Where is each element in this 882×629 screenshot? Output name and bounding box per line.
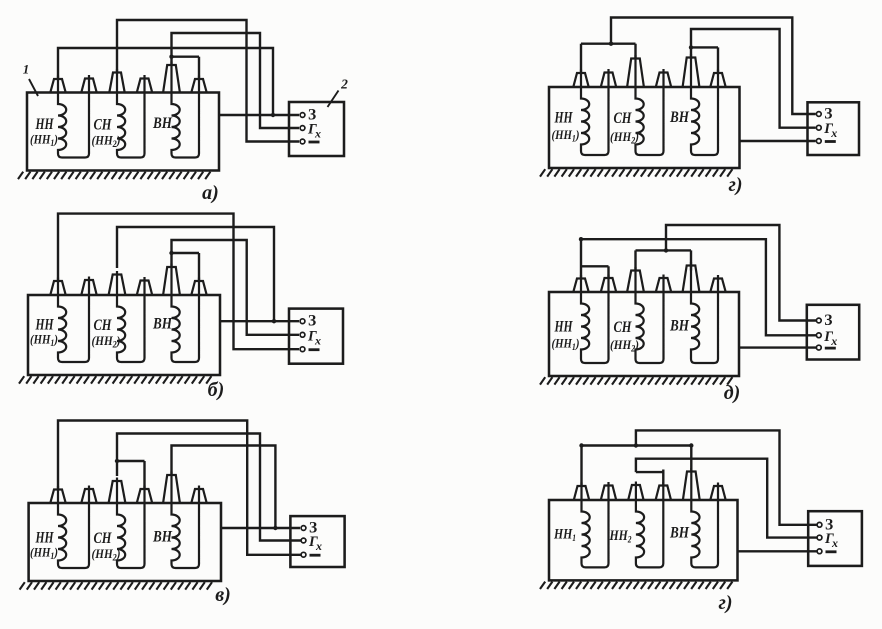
- svg-text:2: 2: [340, 77, 348, 92]
- svg-text:ВН: ВН: [669, 525, 689, 542]
- terminal rx circle (panel г): [816, 125, 821, 130]
- bushing 2 (panel д): [601, 278, 616, 292]
- terminal З circle (panel е): [817, 522, 822, 527]
- terminal З circle (panel б): [300, 319, 305, 324]
- bushing 6 (panel а): [191, 79, 206, 93]
- svg-text:1: 1: [23, 62, 30, 77]
- junction bushing5 bridge (panel г): [689, 45, 693, 49]
- wire bushing4 riser (panel в): [143, 461, 145, 490]
- terminal minus circle (panel е): [817, 549, 822, 554]
- svg-text:НН: НН: [554, 110, 573, 127]
- wire bridge bushing1-bushing5 line A (panel е): [582, 446, 692, 487]
- svg-text:х: х: [315, 539, 322, 553]
- svg-text:НН1: НН1: [553, 527, 576, 545]
- svg-text:З: З: [824, 312, 832, 329]
- wire bridge bushing3-bushing4 (panel в): [117, 460, 145, 462]
- bushing 1 (panel е): [574, 486, 589, 500]
- svg-text:(НН2): (НН2): [610, 337, 639, 355]
- bushing 2 (panel а): [81, 79, 96, 93]
- svg-text:(НН2): (НН2): [92, 333, 121, 351]
- winding НН coil (panel в): [58, 486, 89, 569]
- terminal З circle (panel д): [816, 318, 821, 323]
- svg-text:ВН: ВН: [152, 115, 172, 132]
- winding СН coil (panel в): [117, 478, 145, 569]
- svg-text:д): д): [724, 382, 741, 404]
- winding НН coil (panel г): [581, 69, 609, 155]
- svg-text:СН: СН: [94, 117, 112, 134]
- terminal rx circle (panel в): [301, 538, 306, 543]
- bushing 4 (panel г): [656, 73, 671, 88]
- junction riser on line A (panel е): [634, 443, 638, 447]
- wire bridge bushing5-bushing6 (panel а): [172, 56, 200, 58]
- megohmmeter box (panel д): [807, 305, 859, 360]
- wire ВН bushing5 to rx terminal (panel б): [172, 240, 300, 335]
- terminal label minus dash (panel б): [309, 348, 320, 351]
- wire ВН bushing5 to ground bus (panel в): [172, 446, 276, 529]
- bushing 4 (panel а): [137, 79, 152, 93]
- bushing 5 (panel в): [163, 475, 180, 503]
- wire bushing6 riser (panel б): [198, 253, 200, 282]
- bushing 3 (panel а): [109, 73, 124, 93]
- wire ВН bushing5 to rx terminal (panel а): [172, 33, 300, 128]
- bushing 4 (panel д): [656, 278, 671, 292]
- bushing 5 (panel е): [683, 472, 700, 501]
- winding ВН coil (panel е): [691, 468, 718, 567]
- callout leader 2 (panel а): [328, 91, 339, 108]
- svg-text:в): в): [215, 584, 231, 606]
- wire НН2 bridge to rx terminal (panel е): [636, 459, 817, 538]
- svg-text:(НН1): (НН1): [552, 336, 580, 354]
- wire СН bushing3 to ground bus (panel б): [117, 227, 274, 321]
- svg-text:НН: НН: [35, 116, 54, 133]
- winding СН coil (panel г): [636, 55, 664, 155]
- transformer tank 1 (panel е): [549, 500, 738, 580]
- wire tank wall to minus terminal (panel е): [738, 550, 818, 552]
- terminal minus circle (panel г): [816, 139, 821, 144]
- bushing 4 (panel е): [656, 486, 671, 501]
- winding НН coil (panel б): [58, 277, 89, 363]
- winding СН coil (panel а): [117, 69, 145, 158]
- ground hatching under tank (panel б): [19, 376, 211, 383]
- bushing 1 (panel а): [50, 79, 65, 93]
- bushing 1 (panel г): [573, 73, 588, 87]
- wire bushing6 riser (panel г): [717, 47, 719, 73]
- megohmmeter box (panel е): [808, 511, 862, 566]
- bushing 3 (panel е): [628, 485, 643, 500]
- wire tank wall to З terminal (panel б): [220, 320, 299, 322]
- terminal minus circle (panel в): [301, 552, 306, 557]
- wire НН bushing1 to ground bus (panel а): [58, 48, 273, 115]
- wire bridge bushing5-bushing6 (panel б): [172, 252, 200, 254]
- terminal label minus dash (panel в): [310, 554, 321, 557]
- terminal minus circle (panel а): [300, 139, 305, 144]
- bushing 4 (panel в): [137, 489, 152, 503]
- wire НН bushing1 to minus terminal (panel в): [58, 421, 301, 555]
- winding НН coil (panel д): [581, 275, 609, 364]
- wire bushing6 riser (panel а): [198, 57, 200, 79]
- bushing 5 (panel б): [163, 267, 180, 295]
- winding ВН coil (panel а): [172, 62, 200, 158]
- wire bushing2 riser (panel д): [607, 266, 609, 278]
- junction ВН wire on З bus (panel в): [273, 526, 277, 530]
- svg-text:З: З: [824, 106, 832, 123]
- bushing 6 (panel е): [710, 486, 725, 500]
- terminal minus circle (panel б): [300, 347, 305, 352]
- megohmmeter box (panel г): [808, 102, 860, 155]
- megohmmeter box (panel а): [289, 102, 344, 156]
- svg-text:х: х: [314, 127, 321, 141]
- winding СН coil (panel д): [636, 267, 664, 363]
- svg-text:СН: СН: [614, 110, 632, 127]
- bushing 6 (panel д): [710, 279, 725, 293]
- terminal rx circle (panel б): [300, 332, 305, 337]
- junction bushing3 bridge (panel в): [115, 459, 119, 463]
- ground hatching under tank (panel е): [540, 582, 732, 589]
- terminal label minus dash (panel г): [825, 140, 836, 143]
- junction bushing1 corner (panel е): [579, 443, 583, 447]
- bushing 2 (panel в): [81, 489, 96, 503]
- svg-text:СН: СН: [94, 317, 112, 334]
- wire ВН bushing5 to rx terminal (panel г): [691, 29, 816, 128]
- wire bridge bushing3-bushing4 (panel е): [636, 471, 663, 473]
- wire bridge bushing1-bushing3 (panel г): [581, 43, 636, 45]
- svg-text:ВН: ВН: [152, 529, 172, 546]
- winding СН coil (panel б): [117, 271, 145, 362]
- ground hatching under tank (panel в): [20, 582, 212, 589]
- winding ВН coil (panel г): [691, 54, 718, 155]
- terminal З circle (panel г): [816, 112, 821, 117]
- wire bushing5 riser (panel д): [690, 250, 692, 270]
- transformer tank 1 (panel б): [28, 295, 220, 375]
- terminal rx circle (panel а): [300, 126, 305, 131]
- winding НН coil (panel а): [58, 75, 89, 158]
- junction bushing5 corner (panel е): [689, 443, 693, 447]
- svg-text:ВН: ВН: [669, 318, 689, 335]
- bushing 2 (panel е): [601, 486, 616, 501]
- wire tank wall to minus terminal (panel г): [740, 140, 816, 142]
- bushing 3 (panel б): [109, 275, 126, 296]
- wire bridge bushing1-bushing2 (panel д): [581, 265, 609, 267]
- wire СН+ВН to З terminal (panel д): [666, 225, 816, 321]
- megohmmeter box (panel б): [289, 309, 343, 364]
- ground hatching under tank (panel а): [18, 172, 210, 179]
- bushing 4 (panel б): [137, 281, 152, 296]
- svg-text:(НН2): (НН2): [92, 133, 121, 151]
- wire bridge bushing3-bushing5 (panel д): [636, 249, 692, 251]
- terminal minus circle (panel д): [816, 345, 821, 350]
- svg-text:ВН: ВН: [669, 109, 689, 126]
- svg-text:З: З: [308, 313, 316, 330]
- junction НН wire on З bus (panel а): [271, 113, 275, 117]
- terminal З circle (panel в): [301, 526, 306, 531]
- ground hatching under tank (panel г): [540, 169, 732, 176]
- bushing 1 (panel б): [50, 281, 65, 295]
- svg-text:(НН2): (НН2): [610, 129, 639, 147]
- wire НН bushing1 to rx terminal (panel д): [581, 239, 816, 335]
- svg-text:(НН1): (НН1): [30, 332, 58, 350]
- winding НН coil (panel е): [582, 482, 609, 567]
- bushing 3 (panel г): [627, 59, 644, 88]
- junction СН wire on З bus (panel б): [272, 319, 276, 323]
- junction bridge mid riser (panel д): [664, 248, 668, 252]
- wire bridge bushing5-bushing6 (panel г): [691, 46, 718, 48]
- junction bushing1 line corner (panel д): [579, 237, 583, 241]
- bushing 3 (panel в): [109, 481, 126, 503]
- wire НН bushing1 to minus terminal (panel б): [58, 214, 299, 350]
- terminal label minus dash (panel а): [309, 141, 320, 144]
- svg-text:НН2: НН2: [609, 528, 632, 546]
- winding ВН coil (panel в): [172, 472, 200, 569]
- bushing 3 (panel д): [627, 271, 644, 293]
- svg-text:а): а): [202, 182, 219, 204]
- svg-text:(НН1): (НН1): [30, 132, 58, 150]
- wire tank wall to minus terminal (panel д): [739, 346, 816, 348]
- terminal label minus dash (panel е): [826, 550, 837, 553]
- ground hatching under tank (panel д): [540, 377, 732, 384]
- svg-text:(НН2): (НН2): [92, 546, 121, 564]
- transformer tank 1 (panel г): [549, 87, 740, 168]
- megohmmeter box (panel в): [290, 516, 344, 567]
- junction bushing5 bridge (panel а): [169, 55, 173, 59]
- wire tank wall to З terminal (panel а): [219, 114, 299, 116]
- svg-text:х: х: [830, 126, 837, 140]
- svg-text:г): г): [728, 174, 742, 196]
- bushing 2 (panel б): [81, 280, 96, 295]
- callout leader 1 (panel а): [29, 79, 38, 96]
- svg-text:СН: СН: [94, 530, 112, 547]
- svg-text:(НН1): (НН1): [552, 127, 580, 145]
- svg-text:НН: НН: [554, 319, 573, 336]
- bushing 2 (panel г): [601, 73, 616, 88]
- winding ВН coil (panel д): [691, 262, 718, 363]
- svg-text:х: х: [830, 334, 837, 348]
- transformer tank 1 (panel д): [549, 292, 739, 376]
- wire bushing3 riser (panel г): [634, 44, 636, 59]
- bushing 5 (panel г): [683, 58, 700, 88]
- wire bushing3 riser (panel д): [634, 250, 636, 270]
- svg-text:х: х: [831, 536, 838, 550]
- svg-text:б): б): [208, 379, 225, 401]
- bushing 5 (panel а): [163, 65, 180, 93]
- wire НН+СН to З terminal (panel г): [611, 18, 816, 115]
- terminal З circle (panel а): [300, 113, 305, 118]
- junction bushing5 bridge (panel б): [169, 251, 173, 255]
- svg-text:г): г): [718, 592, 732, 614]
- terminal rx circle (panel е): [817, 535, 822, 540]
- junction bridge mid riser (panel г): [609, 42, 613, 46]
- bushing 6 (panel г): [710, 73, 725, 87]
- wire СН bushing3 to rx terminal (panel в): [117, 434, 301, 541]
- svg-text:ВН: ВН: [152, 316, 172, 333]
- winding ВН coil (panel б): [172, 264, 200, 363]
- transformer tank 1 (panel в): [29, 503, 221, 581]
- winding СН coil (panel е): [636, 482, 663, 568]
- wire СН bushing3 to minus terminal (panel а): [117, 20, 299, 142]
- bushing 5 (panel д): [683, 266, 700, 293]
- svg-text:СН: СН: [614, 319, 632, 336]
- bushing 6 (panel б): [191, 281, 206, 295]
- bushing 1 (panel в): [50, 490, 65, 504]
- svg-text:х: х: [314, 333, 321, 347]
- bushing 1 (panel д): [573, 279, 588, 293]
- bushing 6 (panel в): [191, 489, 206, 503]
- wire tank wall to З terminal (panel в): [221, 527, 300, 529]
- transformer tank 1 (panel а): [27, 93, 219, 171]
- wire bushing1 riser (panel г): [580, 44, 582, 73]
- terminal rx circle (panel д): [816, 333, 821, 338]
- wire bushing4 riser (panel е): [662, 470, 664, 487]
- wire lineA riser to З terminal (panel е): [636, 430, 817, 524]
- terminal label minus dash (panel д): [825, 347, 836, 350]
- svg-text:(НН1): (НН1): [30, 545, 58, 563]
